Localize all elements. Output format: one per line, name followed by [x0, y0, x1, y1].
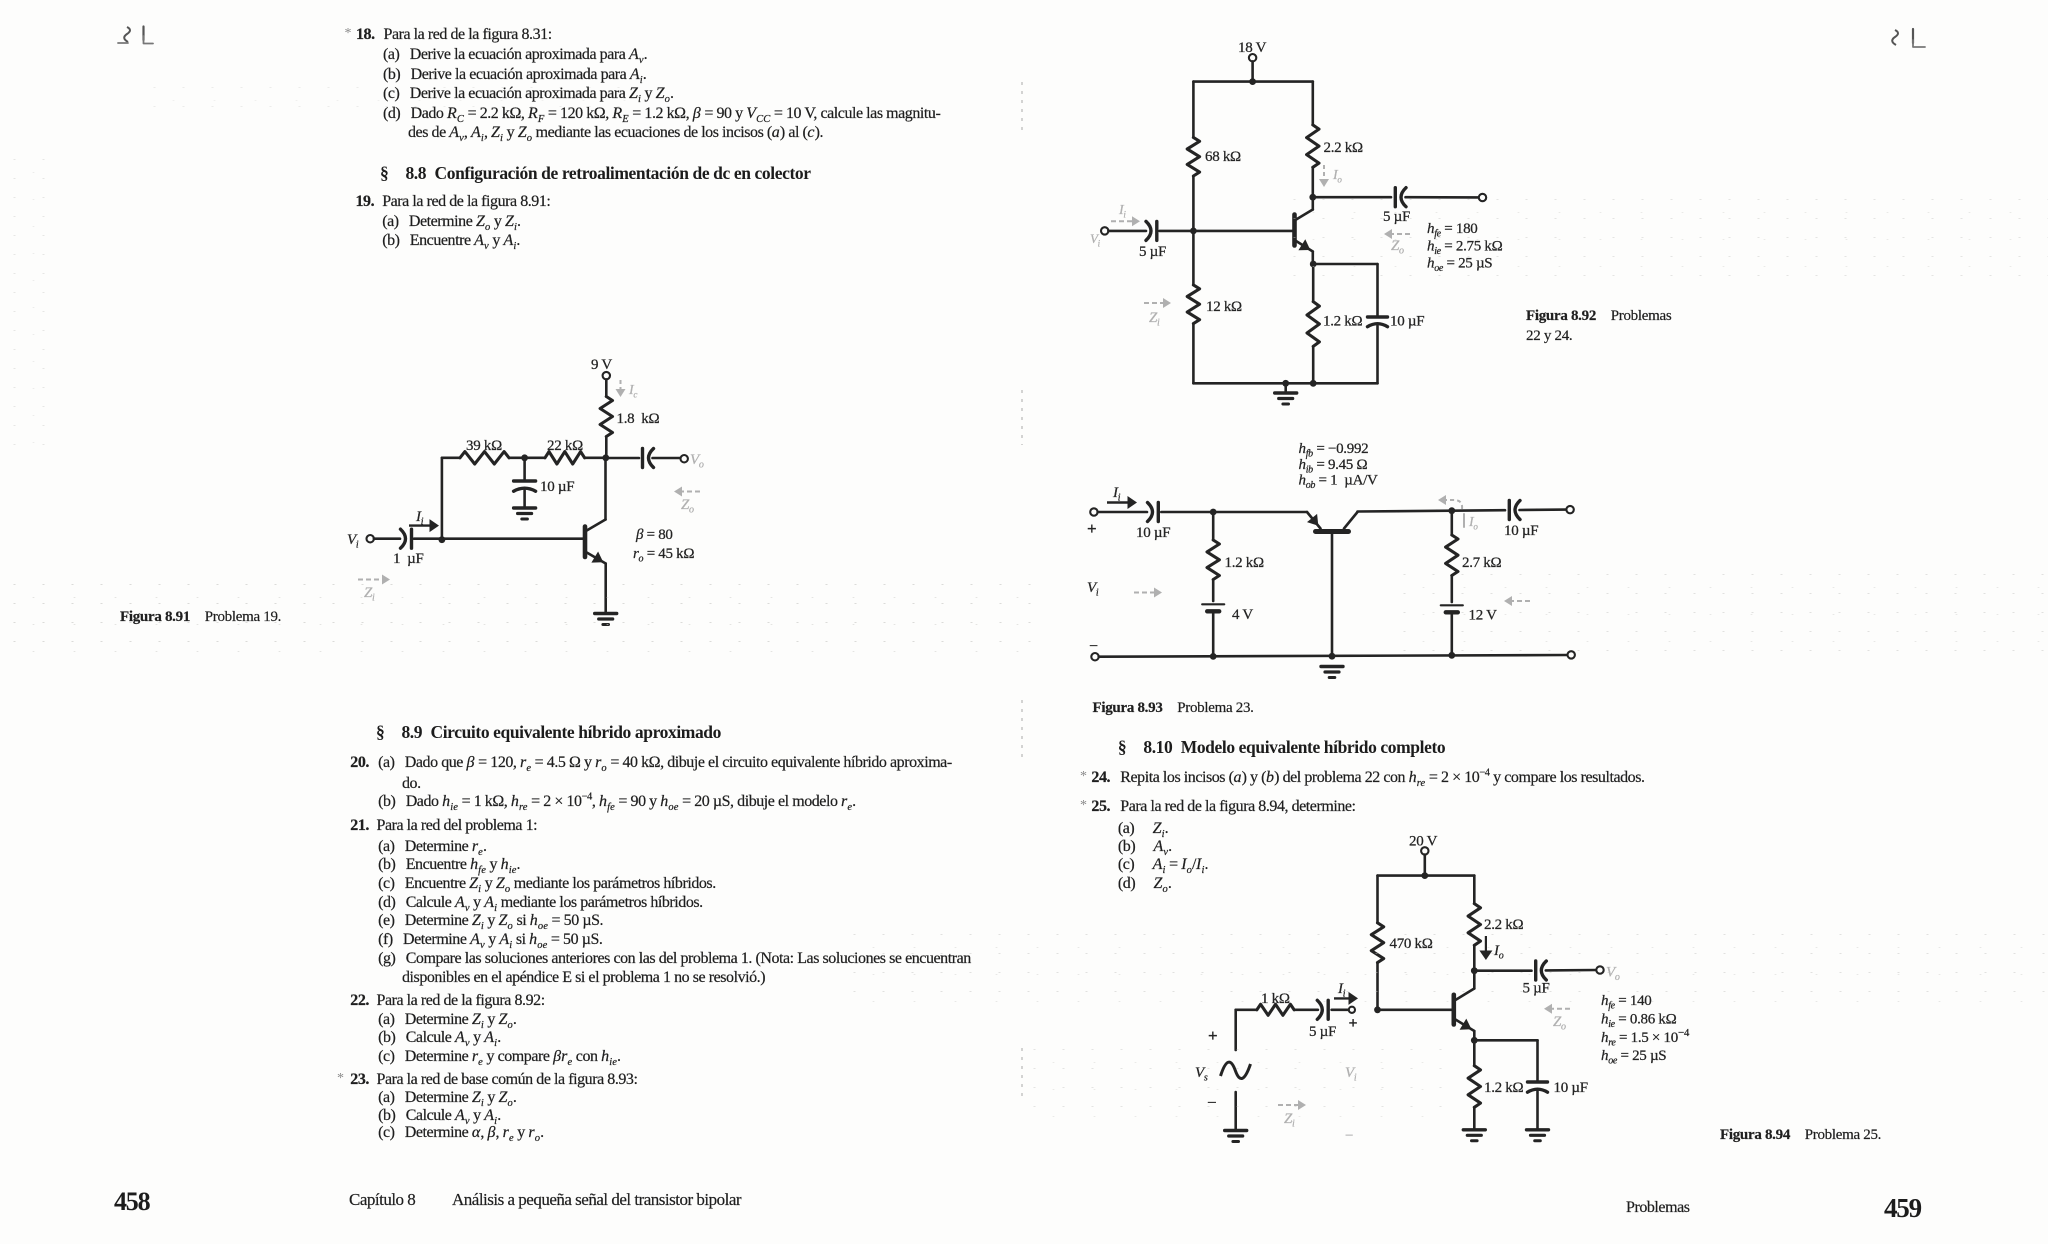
capacitor 10 uF input	[1136, 503, 1170, 542]
svg-text:10 µF: 10 µF	[1554, 1080, 1588, 1096]
svg-text:1.8 kΩ: 1.8 kΩ	[617, 411, 660, 427]
node rail right (dot)	[1448, 652, 1455, 659]
wire source to ground	[1234, 1092, 1237, 1129]
node base divider (dot)	[1190, 228, 1197, 235]
svg-text:Vi: Vi	[1087, 580, 1099, 599]
wire emitter to 1.2k	[1473, 1040, 1476, 1065]
wire 2.2k to collector node	[1473, 945, 1476, 970]
node emitter side (dot)	[1210, 509, 1217, 516]
output terminal	[1479, 194, 1486, 201]
capacitor 1 uF input	[393, 529, 424, 567]
input terminal	[367, 535, 374, 542]
output wire collector to 5uF	[1313, 196, 1391, 199]
wire emitter to 10uF	[1474, 1039, 1537, 1042]
wire resistor to collector node	[605, 437, 608, 458]
svg-text:+: +	[1087, 519, 1096, 538]
svg-text:4 V: 4 V	[1232, 607, 1253, 623]
svg-text:5 µF: 5 µF	[1309, 1024, 1336, 1040]
capacitor 5 uF output	[1523, 961, 1550, 997]
resistor 1.8 kOhm	[600, 397, 659, 437]
wire emitter to 1.2k	[1312, 264, 1315, 302]
node supply (dot)	[1421, 872, 1428, 879]
capacitor 10 uF bypass	[1528, 1080, 1588, 1096]
resistor 2.7 kOhm	[1446, 511, 1502, 576]
svg-text:1.2 kΩ: 1.2 kΩ	[1484, 1080, 1524, 1096]
current Ii arrow	[409, 509, 439, 532]
wire 22k to collector node	[585, 456, 606, 459]
svg-text:Io: Io	[1332, 168, 1342, 185]
impedance Zi faint arrow	[358, 575, 390, 604]
wire cap to ground	[523, 491, 526, 508]
svg-text:10 µF: 10 µF	[540, 479, 574, 495]
impedance Z faint arrow	[1544, 1004, 1570, 1033]
svg-text:hie = 0.86 kΩ: hie = 0.86 kΩ	[1601, 1012, 1677, 1031]
node emitter (dot)	[1471, 1037, 1478, 1044]
output wire collector to cap	[1474, 969, 1531, 972]
capacitor 10 uF bypass	[514, 479, 575, 495]
wire left node to 39k	[442, 456, 460, 459]
gutter dashed line	[1021, 82, 1023, 1102]
capacitor 5 uF input	[1139, 221, 1166, 260]
wire rail to 68k	[1192, 82, 1195, 138]
svg-text:Zo: Zo	[681, 497, 694, 516]
wire 470k to base node	[1376, 963, 1379, 1010]
node base (junction dot)	[439, 536, 446, 543]
svg-text:1.2 kΩ: 1.2 kΩ	[1225, 555, 1265, 571]
resistor 39 kOhm	[460, 438, 509, 464]
resistor 1.2 kOhm emitter	[1468, 1066, 1523, 1108]
svg-text:10 µF: 10 µF	[1136, 525, 1170, 541]
svg-text:12 kΩ: 12 kΩ	[1206, 299, 1242, 315]
output coupling 1 uF to Vo	[606, 449, 688, 468]
impedance Zi faint arrow	[1144, 298, 1171, 329]
current Ic faint arrow	[616, 380, 638, 400]
wire right node to 10uF	[1452, 509, 1505, 512]
supply terminal 9 V	[591, 357, 612, 397]
node rail-gnd (dot)	[1282, 380, 1289, 387]
node collector (dot)	[1309, 194, 1316, 201]
transistor Q3 common base	[1307, 512, 1358, 656]
transistor Q2 NPN	[1295, 197, 1313, 264]
svg-text:−: −	[1345, 1128, 1353, 1144]
node collector (junction dot)	[602, 454, 609, 461]
wire bypass cap to rail	[1376, 326, 1379, 383]
resistor 22 kOhm	[545, 438, 585, 464]
current I faint input arrow	[1090, 203, 1140, 249]
svg-text:2.2 kΩ: 2.2 kΩ	[1324, 140, 1364, 156]
wire rail to 2.2k	[1473, 876, 1476, 904]
wire terminal to 10uF	[1098, 511, 1147, 514]
svg-text:22 kΩ: 22 kΩ	[547, 438, 583, 454]
resistor 1.2 kOhm	[1207, 512, 1264, 580]
battery 12 V	[1441, 576, 1497, 655]
base wire	[1378, 1008, 1454, 1011]
node rail-emitter (dot)	[1310, 380, 1317, 387]
impedance Zi faint arrow	[1134, 588, 1162, 598]
Figura 8.94: CE amplifier with source	[1195, 834, 1690, 1145]
wire mid node down	[523, 458, 526, 480]
wire 5uF to base	[1160, 230, 1295, 233]
capacitor 10 uF bypass	[1368, 314, 1425, 330]
svg-text:+: +	[1349, 1015, 1358, 1032]
svg-text:Ii: Ii	[1118, 203, 1126, 220]
label beta=80 ro=45k	[633, 527, 694, 565]
bottom rail	[1091, 651, 1575, 660]
svg-text:10 µF: 10 µF	[1390, 314, 1424, 330]
h parameters labels	[1601, 993, 1690, 1067]
wire collector to right node	[1358, 509, 1452, 512]
wire 2.2k to collector node	[1312, 167, 1315, 197]
ground bypass	[1527, 1128, 1549, 1131]
wire 39k to 22k	[509, 456, 545, 459]
wire rail to 470k	[1376, 876, 1379, 923]
resistor 68 kOhm	[1187, 137, 1241, 176]
impedance Zo faint arrow	[674, 487, 700, 516]
svg-text:5 µF: 5 µF	[1139, 244, 1166, 260]
svg-text:Zi: Zi	[1149, 310, 1160, 329]
resistor 2.2 kOhm	[1468, 904, 1523, 946]
output terminal	[1566, 506, 1573, 513]
wire left vertical feedback	[441, 458, 444, 540]
source Vs sine	[1195, 1026, 1251, 1112]
wire cap to output terminal	[1546, 969, 1597, 972]
supply terminal 20 V	[1409, 834, 1438, 876]
svg-text:Vo: Vo	[690, 452, 704, 471]
Figura 8.92: voltage-divider CE amplifier	[1090, 40, 1503, 404]
node collector side (dot)	[1448, 507, 1455, 514]
wire rail to 2.2k	[1312, 82, 1315, 125]
current Ii arrow	[1107, 485, 1137, 509]
node feedback mid (junction dot)	[521, 454, 528, 461]
resistor 470 kOhm	[1371, 923, 1432, 963]
svg-text:68 kΩ: 68 kΩ	[1205, 149, 1241, 165]
input terminal small	[1349, 1007, 1358, 1032]
top rail	[1193, 80, 1312, 83]
wire 68k to base node	[1192, 176, 1195, 231]
node rail base (dot)	[1329, 653, 1336, 660]
wire 1k to source	[1236, 1008, 1257, 1011]
svg-text:Ii: Ii	[1112, 485, 1121, 504]
wire base node to 12k	[1192, 231, 1195, 285]
scan noise bands	[140, 78, 640, 118]
wire cap to base	[414, 537, 583, 540]
svg-text:9 V: 9 V	[591, 357, 612, 373]
wire terminal to cap	[374, 537, 400, 540]
wire 5uF to output terminal	[1406, 196, 1479, 199]
Figura 8.93: common-base network	[1087, 441, 1575, 678]
svg-text:Vi: Vi	[1090, 231, 1101, 249]
current Ii arrow	[1334, 981, 1358, 1005]
input terminal Vi	[1101, 227, 1108, 234]
wire 10uF to emitter node	[1161, 511, 1213, 514]
svg-text:β = 80: β = 80	[635, 527, 673, 543]
impedance Zo faint arrow	[1504, 596, 1530, 606]
input terminal plus	[1087, 508, 1098, 538]
svg-text:ro = 45 kΩ: ro = 45 kΩ	[633, 546, 694, 565]
svg-text:1.2 kΩ: 1.2 kΩ	[1323, 314, 1363, 330]
node collector (dot)	[1471, 967, 1478, 974]
impedance Zo faint arrow	[1384, 229, 1410, 257]
output terminal Vo	[1596, 965, 1620, 984]
svg-text:hoe = 25 µS: hoe = 25 µS	[1601, 1048, 1666, 1067]
svg-text:Zo: Zo	[1553, 1014, 1566, 1033]
capacitor 5 uF output	[1383, 188, 1410, 225]
ground below 10uF	[514, 506, 536, 509]
wire 12k to bottom rail	[1192, 324, 1195, 384]
node base (dot)	[1374, 1006, 1381, 1013]
wire terminal to 5uF	[1108, 230, 1146, 233]
ground emitter	[595, 612, 617, 615]
wire emitter node to bypass cap	[1313, 263, 1377, 266]
supply terminal 18 V	[1238, 40, 1267, 82]
node emitter (dot)	[1310, 261, 1317, 268]
corner registration marks top-left	[118, 27, 153, 44]
current Io arrow	[1479, 936, 1503, 962]
resistor 1 kOhm	[1257, 991, 1318, 1015]
wire 1.2k to bottom rail	[1312, 346, 1315, 383]
h parameters labels	[1299, 441, 1379, 491]
transistor Q1 NPN	[585, 458, 606, 612]
Figura 8.91: collector feedback network	[347, 357, 704, 625]
capacitor 5 uF input	[1309, 1000, 1336, 1040]
svg-text:39 kΩ: 39 kΩ	[466, 438, 502, 454]
node supply (dot)	[1249, 78, 1256, 85]
battery 4 V	[1202, 580, 1253, 657]
ground below base	[1321, 665, 1343, 668]
resistor 1.2 kOhm emitter	[1307, 302, 1363, 347]
ground symbol	[1284, 383, 1287, 392]
svg-text:Ii: Ii	[415, 509, 424, 528]
capacitor 10 uF output	[1504, 501, 1538, 540]
label Vi faint	[1345, 1065, 1357, 1144]
ground source	[1225, 1129, 1247, 1132]
transistor Q4 NPN	[1454, 971, 1475, 1041]
wire 10uF to ground	[1536, 1092, 1539, 1129]
ground emitter	[1463, 1128, 1485, 1131]
wire 10uF to right terminal	[1520, 508, 1567, 511]
impedance Zi faint arrow	[1278, 1100, 1306, 1130]
svg-text:1 µF: 1 µF	[393, 551, 424, 567]
current Io faint arrow	[1438, 495, 1478, 532]
svg-text:hre = 1.5 × 10−4: hre = 1.5 × 10−4	[1601, 1027, 1690, 1049]
node rail left (dot)	[1210, 653, 1217, 660]
h parameters labels	[1427, 221, 1503, 274]
svg-text:Ic: Ic	[628, 383, 637, 400]
corner registration marks top-right	[1892, 29, 1925, 47]
wire 1.2k to ground	[1473, 1107, 1476, 1128]
resistor 2.2 kOhm collector	[1307, 125, 1363, 167]
top rail	[1378, 874, 1475, 877]
svg-text:10 µF: 10 µF	[1504, 523, 1538, 539]
bottom rail	[1193, 382, 1377, 385]
current I faint arrow collector	[1319, 165, 1342, 187]
svg-text:Vi: Vi	[347, 532, 359, 551]
wire cap to terminal	[1332, 1008, 1349, 1011]
resistor 12 kOhm	[1187, 285, 1242, 324]
wire node to transistor emitter	[1213, 511, 1307, 514]
svg-text:Io: Io	[1468, 515, 1478, 532]
